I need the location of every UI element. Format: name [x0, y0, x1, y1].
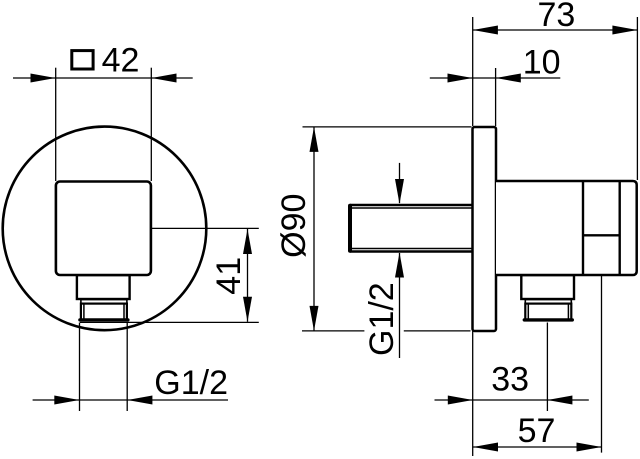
dimension 73 : right extension line — [636, 17, 638, 180]
body partition 2 — [619, 181, 621, 275]
dimension 10 : dimension line — [430, 77, 561, 79]
dimension Ø90 : dimension line — [313, 127, 315, 331]
dimension 73 : right arrowhead — [612, 26, 637, 35]
svg-text:G1/2: G1/2 — [363, 282, 401, 356]
dimension square-42 : dimension line — [13, 77, 193, 79]
dimension 10 : right extension line — [495, 68, 497, 126]
svg-text:G1/2: G1/2 — [154, 364, 228, 402]
dimension 73 : left extension line — [472, 17, 474, 126]
dimension square-42 : left arrowhead — [31, 74, 56, 83]
svg-text:42: 42 — [102, 42, 140, 80]
dimension 41 : top arrowhead — [243, 229, 252, 254]
dimension 41 : bottom arrowhead — [243, 297, 252, 322]
dimension G1/2 front : extension line left — [79, 323, 81, 412]
dimension Ø90 : top extension line — [303, 126, 472, 128]
svg-text:10: 10 — [523, 44, 561, 82]
dimension G1/2 front : extension line right — [126, 323, 128, 412]
dimension square-42 : right arrowhead — [152, 74, 177, 83]
dimension 57 : dimension line — [473, 446, 602, 448]
dimension square-42 : extension line left — [55, 68, 57, 181]
dimension G1/2 front : dimension line — [33, 399, 228, 401]
svg-text:41: 41 — [210, 257, 248, 295]
body partition 1 — [582, 181, 584, 275]
dimension 33 : left extension line (below flange) — [472, 331, 474, 456]
dimension square-42 : extension line right — [150, 68, 152, 181]
dimension 33 : dimension line — [435, 399, 589, 401]
dimension 41 : extension line bottom — [80, 321, 259, 323]
dimension 33 : right extension line (outlet axis) — [546, 323, 548, 412]
bottom outlet inner thread lines (side) — [527, 304, 529, 320]
step below body — [77, 275, 130, 299]
shaft thread root top — [352, 207, 473, 209]
body horizontal divider — [583, 234, 620, 236]
wall flange (side) — [473, 127, 497, 331]
dimension Ø90 : bottom extension line (two segments) — [302, 330, 364, 332]
nipple G1/2 body — [81, 304, 127, 320]
dimension 57 : right extension line — [601, 276, 603, 453]
dimension G1/2 side : dimension line lower segment — [399, 253, 401, 358]
dimension 33 : right arrowhead — [547, 396, 572, 405]
dimension 33 : left arrowhead — [448, 396, 473, 405]
bottom outlet collar (side) — [525, 300, 571, 304]
dimension 10 : left arrowhead — [448, 74, 473, 83]
dimension 41 : dimension line — [247, 229, 249, 322]
dimension 73 : left arrowhead — [473, 26, 498, 35]
nipple collar — [81, 300, 127, 304]
dimension 57 : right arrowhead — [577, 443, 602, 452]
shaft end face with chamfer — [348, 206, 352, 251]
bottom outlet G1/2 nipple (side) — [525, 304, 571, 320]
valve body (side) — [496, 181, 637, 275]
dimension Ø90 : bottom arrowhead — [310, 306, 319, 331]
round escutcheon circle Ø90 — [3, 127, 207, 331]
svg-text:Ø90: Ø90 — [275, 194, 313, 258]
bottom outlet thick bottom edge (side) — [524, 318, 572, 321]
dimension G1/2 side : upper arrowhead (down) — [395, 179, 404, 204]
dimension 57 : left arrowhead — [473, 443, 498, 452]
dimension G1/2 front : left arrowhead — [54, 396, 79, 405]
nipple thick bottom edge — [80, 318, 128, 321]
nipple inner thread lines — [83, 304, 85, 320]
svg-text:57: 57 — [518, 412, 556, 450]
dimension 73 : dimension line — [473, 29, 638, 31]
dimension G1/2 front : right arrowhead — [127, 396, 152, 405]
dimension G1/2 side : lower arrowhead (up) — [395, 253, 404, 278]
dimension square-42 : square symbol — [72, 51, 93, 69]
shaft thread root bottom — [352, 248, 473, 250]
dimension 10 : right arrowhead — [496, 74, 521, 83]
shaft outer bottom — [350, 250, 473, 252]
svg-text:73: 73 — [538, 0, 576, 34]
dimension 41 : extension line top (center axis) — [152, 227, 259, 229]
svg-text:33: 33 — [491, 360, 529, 398]
bottom outlet step (side) — [521, 275, 574, 299]
dimension G1/2 side : dimension line upper segment — [399, 163, 401, 203]
dimension Ø90 : top arrowhead — [310, 127, 319, 152]
shaft G1/2 (side) outer top — [350, 204, 473, 206]
square body 42x42 — [56, 182, 151, 276]
